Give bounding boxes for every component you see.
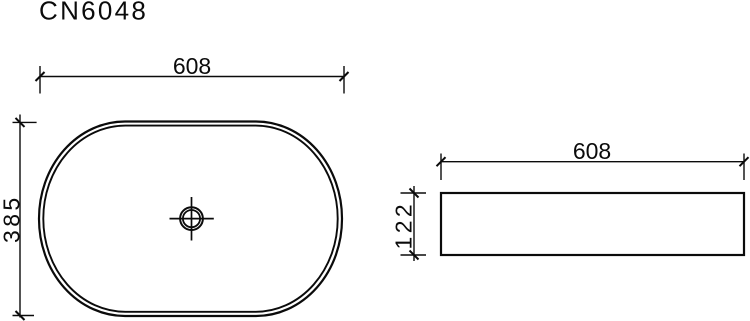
dimension line 385 [19,115,21,318]
tick right (608 side view) [740,157,749,166]
tick right (608 top view) [340,72,349,81]
extension stub right (608 top view) [343,66,345,94]
svg-text:608: 608 [573,138,611,164]
drain inner circle [183,210,200,227]
dimension line 608 (side view) [441,161,744,163]
extension stub bottom (122) [401,254,427,256]
tick bottom (385) [16,311,25,320]
extension stub left (608 top view) [39,66,41,94]
svg-text:385: 385 [0,194,25,243]
extension stub bottom (385) [13,315,35,317]
dimension line 122 [413,186,415,261]
tick left (608 side view) [437,157,446,166]
drain crosshair vertical [191,197,193,241]
tick top (122) [410,189,419,198]
svg-text:608: 608 [173,53,211,79]
svg-text:CN6048: CN6048 [39,0,148,26]
dimension line 608 (top view) [40,76,344,78]
drain outer circle [180,207,203,230]
extension stub top (122) [401,192,427,194]
tick top (385) [16,118,25,127]
tick bottom (122) [410,251,419,260]
drain crosshair horizontal [170,218,214,220]
side view body [441,193,744,255]
svg-text:122: 122 [391,201,417,250]
tick left (608 top view) [36,72,45,81]
basin outer rim (top view) [39,122,342,317]
basin inner rim (top view) [43,126,337,312]
extension stub right (608 side view) [743,154,745,181]
extension stub left (608 side view) [440,154,442,181]
extension stub top (385) [13,121,37,123]
